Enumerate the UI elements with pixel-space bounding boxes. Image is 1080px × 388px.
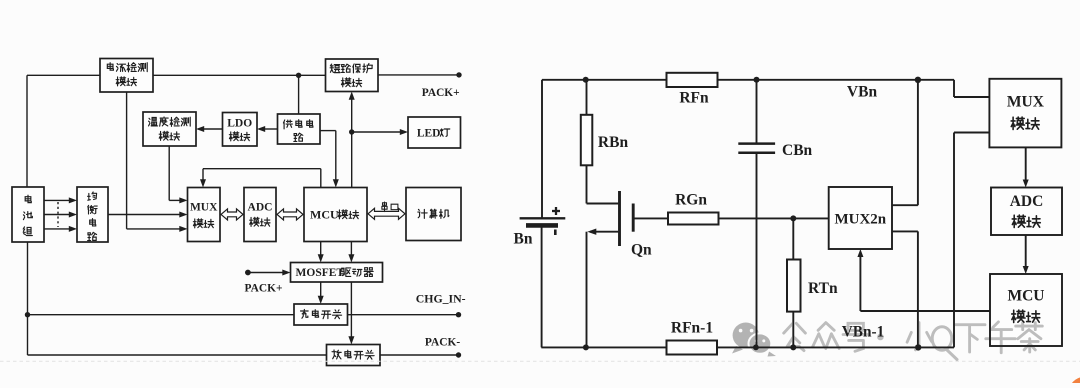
svg-text:CHG_IN-: CHG_IN- [416, 292, 466, 306]
svg-text:RGn: RGn [675, 192, 707, 209]
svg-text:MCU: MCU [310, 208, 339, 222]
svg-text:MUX: MUX [1007, 94, 1045, 111]
svg-text:Bn: Bn [514, 231, 533, 248]
svg-text:RTn: RTn [808, 280, 838, 297]
svg-text:RFn-1: RFn-1 [671, 320, 713, 337]
svg-text:LED: LED [417, 127, 441, 139]
svg-text:RFn: RFn [679, 90, 709, 107]
svg-text:LDO: LDO [227, 118, 252, 130]
svg-text:RBn: RBn [598, 134, 629, 151]
svg-text:MCU: MCU [1007, 288, 1044, 305]
svg-text:MUX2n: MUX2n [834, 212, 886, 228]
svg-text:PACK+: PACK+ [422, 87, 460, 99]
svg-text:MOSFET: MOSFET [296, 267, 345, 279]
svg-text:ADC: ADC [1010, 193, 1044, 210]
svg-text:PACK-: PACK- [425, 337, 460, 349]
svg-text:PACK+: PACK+ [245, 283, 283, 295]
svg-text:MUX: MUX [190, 202, 218, 214]
svg-text:CBn: CBn [782, 142, 813, 159]
svg-text:VBn: VBn [847, 84, 878, 101]
svg-text:Qn: Qn [631, 242, 652, 259]
svg-text:ADC: ADC [248, 202, 273, 214]
